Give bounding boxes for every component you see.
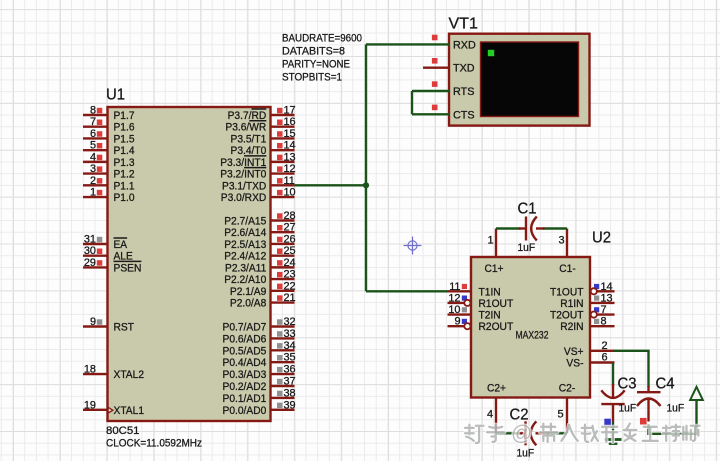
svg-text:BAUDRATE=9600: BAUDRATE=9600: [282, 33, 362, 45]
svg-text:5: 5: [90, 140, 96, 152]
svg-text:P1.6: P1.6: [114, 122, 135, 134]
svg-text:9: 9: [90, 316, 96, 328]
svg-text:XTAL2: XTAL2: [114, 369, 145, 381]
svg-text:P1.1: P1.1: [114, 180, 135, 192]
svg-text:30: 30: [84, 245, 96, 257]
svg-text:16: 16: [284, 116, 296, 128]
svg-text:MAX232: MAX232: [516, 330, 549, 342]
svg-text:P3.6/WR: P3.6/WR: [225, 122, 266, 134]
svg-text:7: 7: [601, 304, 607, 316]
svg-text:C2: C2: [510, 407, 529, 424]
svg-text:80C51: 80C51: [106, 425, 140, 437]
svg-text:15: 15: [284, 128, 296, 140]
svg-text:27: 27: [284, 222, 296, 234]
svg-text:29: 29: [84, 257, 96, 269]
svg-text:7: 7: [90, 116, 96, 128]
svg-text:C4: C4: [656, 376, 675, 393]
svg-text:C1-: C1-: [559, 263, 576, 275]
svg-text:PARITY=NONE: PARITY=NONE: [282, 59, 350, 71]
svg-text:PSEN: PSEN: [114, 262, 142, 274]
svg-text:39: 39: [284, 399, 296, 411]
svg-text:9: 9: [454, 316, 460, 328]
svg-text:25: 25: [284, 245, 296, 257]
svg-text:32: 32: [284, 316, 296, 328]
svg-text:1uF: 1uF: [619, 403, 637, 415]
svg-text:2: 2: [602, 340, 608, 352]
svg-text:T2OUT: T2OUT: [550, 310, 584, 322]
svg-text:P3.1/TXD: P3.1/TXD: [222, 180, 266, 192]
svg-text:P1.7: P1.7: [114, 110, 135, 122]
svg-text:12: 12: [284, 163, 296, 175]
svg-text:11: 11: [449, 281, 460, 293]
svg-text:34: 34: [284, 340, 296, 352]
svg-text:26: 26: [284, 233, 296, 245]
svg-text:17: 17: [284, 105, 296, 117]
svg-text:CLOCK=11.0592MHz: CLOCK=11.0592MHz: [106, 438, 202, 450]
svg-text:4: 4: [90, 151, 96, 163]
svg-text:8: 8: [90, 105, 96, 117]
svg-text:P0.7/AD7: P0.7/AD7: [223, 322, 267, 334]
svg-text:5: 5: [557, 409, 563, 421]
svg-text:R2IN: R2IN: [560, 321, 583, 333]
svg-text:R1OUT: R1OUT: [479, 298, 514, 310]
svg-text:1uF: 1uF: [667, 403, 685, 415]
svg-text:TXD: TXD: [453, 63, 475, 75]
svg-text:VS-: VS-: [566, 358, 583, 370]
svg-text:P1.3: P1.3: [114, 157, 135, 169]
svg-text:RXD: RXD: [453, 39, 476, 51]
svg-text:P1.0: P1.0: [114, 192, 135, 204]
svg-text:23: 23: [284, 269, 296, 281]
svg-text:3: 3: [558, 235, 564, 247]
svg-text:EA: EA: [114, 239, 128, 251]
svg-text:37: 37: [284, 376, 296, 388]
svg-text:8: 8: [601, 316, 607, 328]
svg-text:P1.2: P1.2: [114, 169, 135, 181]
svg-text:1: 1: [90, 187, 96, 199]
svg-text:U2: U2: [592, 230, 611, 247]
svg-text:P3.5/T1: P3.5/T1: [231, 133, 267, 145]
svg-text:VT1: VT1: [449, 16, 478, 33]
svg-text:T1OUT: T1OUT: [550, 286, 584, 298]
svg-text:C2+: C2+: [487, 382, 506, 394]
svg-text:2: 2: [90, 175, 96, 187]
svg-text:1uF: 1uF: [518, 242, 536, 254]
svg-text:19: 19: [84, 399, 96, 411]
svg-text:P1.5: P1.5: [114, 133, 135, 145]
svg-text:P2.3/A11: P2.3/A11: [225, 262, 266, 274]
svg-text:33: 33: [284, 328, 296, 340]
svg-text:XTAL1: XTAL1: [114, 405, 145, 417]
svg-text:T2IN: T2IN: [479, 310, 501, 322]
svg-text:14: 14: [284, 140, 296, 152]
svg-text:35: 35: [284, 352, 296, 364]
svg-text:31: 31: [84, 234, 96, 246]
svg-text:STOPBITS=1: STOPBITS=1: [282, 72, 342, 84]
svg-text:T1IN: T1IN: [479, 286, 501, 298]
svg-text:P0.2/AD2: P0.2/AD2: [223, 381, 267, 393]
svg-text:C1+: C1+: [484, 263, 503, 275]
svg-text:RTS: RTS: [453, 86, 474, 98]
svg-text:P2.6/A14: P2.6/A14: [224, 227, 266, 239]
svg-text:P2.0/A8: P2.0/A8: [230, 298, 266, 310]
svg-text:3: 3: [90, 163, 96, 175]
svg-text:P2.7/A15: P2.7/A15: [224, 216, 266, 228]
svg-text:P2.1/A9: P2.1/A9: [230, 286, 266, 298]
svg-text:P3.0/RXD: P3.0/RXD: [221, 192, 267, 204]
svg-text:11: 11: [284, 175, 295, 187]
svg-text:C1: C1: [518, 201, 537, 218]
svg-text:36: 36: [284, 364, 296, 376]
svg-text:P0.3/AD3: P0.3/AD3: [223, 369, 267, 381]
svg-text:P1.4: P1.4: [114, 145, 135, 157]
svg-text:38: 38: [284, 387, 296, 399]
svg-text:CTS: CTS: [453, 109, 475, 121]
svg-text:P0.5/AD5: P0.5/AD5: [223, 345, 267, 357]
svg-text:1: 1: [487, 235, 493, 247]
svg-text:21: 21: [284, 292, 296, 304]
svg-text:22: 22: [284, 280, 296, 292]
svg-text:6: 6: [602, 352, 608, 364]
svg-text:VS+: VS+: [564, 346, 584, 358]
svg-text:P0.1/AD1: P0.1/AD1: [223, 393, 267, 405]
svg-text:U1: U1: [106, 87, 125, 104]
svg-text:12: 12: [448, 292, 460, 304]
svg-text:P0.0/AD0: P0.0/AD0: [223, 405, 267, 417]
svg-text:13: 13: [601, 292, 613, 304]
svg-text:P2.4/A12: P2.4/A12: [224, 251, 266, 263]
svg-text:24: 24: [284, 257, 296, 269]
svg-text:R1IN: R1IN: [560, 298, 583, 310]
svg-text:P2.2/A10: P2.2/A10: [224, 274, 266, 286]
svg-text:14: 14: [601, 281, 613, 293]
svg-text:18: 18: [84, 364, 96, 376]
svg-text:@: @: [511, 422, 532, 445]
svg-text:C3: C3: [618, 376, 637, 393]
svg-text:4: 4: [487, 409, 493, 421]
svg-text:P2.5/A13: P2.5/A13: [224, 239, 266, 251]
svg-text:DATABITS=8: DATABITS=8: [282, 46, 345, 58]
svg-text:R2OUT: R2OUT: [479, 321, 514, 333]
svg-text:C2-: C2-: [559, 382, 576, 394]
svg-text:10: 10: [284, 187, 296, 199]
svg-text:P3.2/INT0: P3.2/INT0: [220, 169, 266, 181]
svg-text:P0.4/AD4: P0.4/AD4: [223, 357, 267, 369]
svg-text:28: 28: [284, 210, 296, 222]
svg-text:6: 6: [90, 128, 96, 140]
svg-text:10: 10: [448, 304, 460, 316]
svg-text:RST: RST: [114, 322, 135, 334]
svg-text:P0.6/AD6: P0.6/AD6: [223, 333, 267, 345]
svg-text:13: 13: [284, 151, 296, 163]
svg-text:1uF: 1uF: [517, 448, 535, 460]
